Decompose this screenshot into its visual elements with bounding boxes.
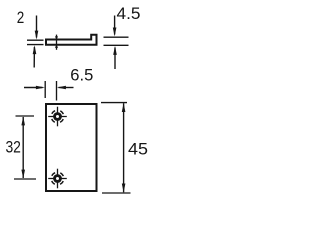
hole H1 (top) : dashed pitch circle [51, 110, 64, 123]
dimension 2: lower dim line with up arrow [33, 45, 37, 67]
svg-text:32: 32 [5, 139, 21, 157]
svg-text:6.5: 6.5 [70, 67, 93, 85]
dimension 4.5: upper dim line with down arrow [113, 16, 117, 37]
svg-text:2: 2 [17, 9, 25, 27]
dimension 32: extension line (top hole axis) [16, 115, 35, 117]
dimension 45: extension line (plate top) [101, 102, 127, 104]
dimension 4.5: extension line (lip top) [104, 36, 129, 38]
hole H1 (top) : centerlines [48, 107, 67, 127]
hole H2 (bottom) : centerlines [48, 169, 67, 189]
dimension 4.5: lower dim line with up arrow [113, 46, 117, 69]
dimension 2: upper dim line with down arrow [35, 16, 39, 40]
hole H2 (bottom) : hole ring [53, 174, 62, 183]
dimension 2: extension line (top surface) [27, 39, 44, 41]
dimension 6.5: extension line (hole axis) [56, 81, 58, 101]
dimension 6.5: right dim line with left arrow [57, 86, 74, 90]
dimension 45: dim line with arrows [122, 103, 126, 193]
hole H2 (bottom) : dashed pitch circle [51, 172, 64, 185]
svg-text:45: 45 [128, 141, 148, 159]
hole centerline through side view [55, 35, 58, 50]
dimension 6.5: left dim line with right arrow [24, 86, 45, 90]
front view: plate rectangle [46, 104, 97, 191]
dimension 6.5: extension line (plate left edge) [44, 81, 46, 98]
dimension 4.5: extension line (plate bottom) [104, 44, 129, 46]
dimension 32: extension line (bottom hole axis) [14, 178, 36, 180]
dimension 2: extension line (bottom surface) [27, 44, 44, 46]
hole H1 (top) : hole ring [53, 112, 62, 121]
side view: bracket profile outline [46, 35, 97, 45]
dimension 32: dim line with arrows [21, 116, 25, 178]
dimension 45: extension line (plate bottom) [102, 192, 131, 194]
svg-text:4.5: 4.5 [117, 5, 141, 23]
